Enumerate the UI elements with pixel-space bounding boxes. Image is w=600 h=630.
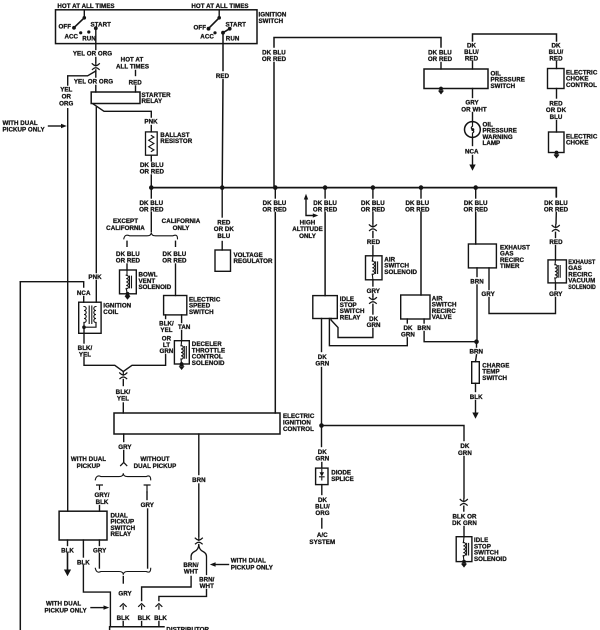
ignition switch 1 RUN contact dot [87, 30, 90, 33]
wire RED into starter relay [135, 86, 137, 92]
svg-text:OR RED: OR RED [428, 56, 453, 63]
wire valve brn to junction [424, 332, 476, 342]
idle stop relay output dk grn long wire [321, 319, 323, 352]
relay output gry [98, 540, 100, 546]
wire into oil pressure switch pin2 [472, 62, 474, 70]
wire dk grn to idle stop relay [331, 319, 373, 338]
wire valve brn output [423, 319, 425, 323]
svg-text:START: START [91, 21, 112, 28]
wire bus drop x421 [420, 188, 422, 198]
wire connector down to starter relay [95, 70, 97, 92]
electric speed switch box [164, 296, 187, 315]
dashed stub right branch [175, 241, 177, 246]
svg-text:RESISTOR: RESISTOR [160, 138, 192, 145]
chevron at gry split [121, 462, 127, 465]
wire timer brn down [476, 268, 478, 277]
wire pnk to ballast [150, 126, 152, 132]
wire NCA elbow from left trunk [20, 282, 83, 287]
svg-text:GRY: GRY [141, 502, 155, 509]
svg-text:OR WHT: OR WHT [461, 106, 487, 113]
ignition switch 1 ACC contact dot [79, 31, 82, 34]
svg-text:LAMP: LAMP [483, 140, 501, 147]
svg-text:HOT AT ALL TIMES: HOT AT ALL TIMES [57, 3, 114, 10]
split brace (dual pickup) [95, 473, 150, 480]
wire ignition feed bus (top) [274, 38, 441, 48]
wire stub hot-at to RED [135, 71, 137, 76]
svg-text:SWITCH: SWITCH [259, 18, 284, 25]
svg-text:RUN: RUN [82, 35, 96, 42]
svg-text:GRY: GRY [549, 291, 563, 298]
wire valve dk grn output [406, 319, 408, 323]
svg-text:YEL: YEL [160, 327, 172, 334]
wire choke control down [556, 89, 558, 99]
arrow to blk2 wire [91, 607, 105, 609]
wire into EIC [122, 403, 124, 413]
svg-text:YEL: YEL [117, 396, 129, 403]
HIGH ALTITUDE ONLY annotation arrow [306, 199, 314, 216]
ignition switch 1 pivot stub [83, 10, 85, 18]
wire into idle stop switch solenoid [463, 527, 465, 537]
dk grn junction dot [319, 423, 324, 428]
ignition switch 1 pivot dot [83, 16, 87, 20]
svg-text:TIMER: TIMER [500, 263, 520, 270]
svg-text:TAN: TAN [178, 324, 191, 331]
wire connector to RED label [372, 232, 374, 238]
wire gry to split [123, 451, 125, 462]
arrow to brn/wht leg [215, 564, 229, 566]
wire gry elbow to egr vacuum solenoid [489, 298, 556, 314]
ignition switch 2 pivot stub [218, 10, 220, 17]
connector C4 [369, 297, 376, 303]
svg-text:RED: RED [367, 239, 381, 246]
wire blk2 to distributor [83, 566, 110, 627]
svg-text:RUN: RUN [226, 36, 240, 43]
svg-text:BLK: BLK [138, 615, 151, 622]
wire into egr vacuum solenoid [555, 246, 557, 260]
wire starter relay to ballast (pnk) [93, 104, 151, 117]
wire x274 down to main bus [273, 63, 275, 188]
wire connector to red label [555, 232, 557, 237]
svg-text:HOT AT ALL TIMES: HOT AT ALL TIMES [191, 3, 248, 10]
wire into voltage regulator [221, 242, 223, 251]
wire bus drop x476 [475, 188, 477, 198]
wire coil to Y merge [84, 358, 123, 372]
svg-text:CALIFORNIA: CALIFORNIA [106, 225, 145, 232]
svg-text:NCA: NCA [465, 148, 479, 155]
svg-text:RELAY: RELAY [111, 531, 132, 538]
wire air switch solenoid down [372, 280, 374, 286]
svg-text:SYSTEM: SYSTEM [309, 539, 335, 546]
svg-text:BLU: BLU [217, 233, 230, 240]
wire tan to deceler solenoid [181, 331, 183, 341]
wire x476 to egr timer [475, 213, 477, 245]
svg-text:NCA: NCA [77, 290, 91, 297]
brn split Y [191, 545, 206, 575]
svg-text:YEL OR ORG: YEL OR ORG [73, 50, 112, 57]
ignition switch 2 START contact dot [228, 27, 232, 31]
bowl vent solenoid [120, 270, 137, 294]
svg-text:GRN: GRN [367, 322, 381, 329]
chevron connector dist 3 [156, 604, 162, 610]
svg-text:SPLICE: SPLICE [331, 476, 354, 483]
T mark left branch [97, 485, 103, 490]
svg-text:YEL OR ORG: YEL OR ORG [74, 79, 113, 86]
electric choke control box [548, 69, 565, 89]
bus junction node dots [149, 185, 154, 190]
wire top-right link bus [473, 34, 557, 41]
wire bus drop x275 to EIC [274, 188, 276, 198]
svg-text:DK GRN: DK GRN [452, 520, 477, 527]
wire ballast to bus [150, 155, 152, 161]
wire Y merge down [122, 380, 124, 386]
connector C5 [552, 225, 559, 231]
wire gry to connector [372, 294, 374, 297]
connector C1 (bullet) [92, 63, 99, 69]
svg-text:OR: OR [62, 93, 72, 100]
svg-text:OR RED: OR RED [116, 257, 141, 264]
svg-text:RED: RED [216, 73, 230, 80]
svg-text:WHT: WHT [184, 569, 198, 576]
svg-text:PICKUP: PICKUP [77, 463, 101, 470]
T mark right branch [144, 485, 150, 492]
electric speed switch output BLK/YEL [165, 315, 167, 319]
wire into distributor 1 [122, 622, 124, 627]
junction dot brn [474, 339, 479, 344]
wire diode splice down [321, 485, 323, 495]
ignition switch 2 OFF contact dot [207, 27, 211, 31]
wire brn/wht right leg to distributor 3 [159, 590, 207, 601]
deceler throttle control solenoid [174, 341, 189, 364]
svg-text:BRN: BRN [192, 477, 206, 484]
wire charge temp blk [475, 383, 477, 391]
oil pressure warning lamp L1 [465, 122, 481, 138]
chevron connector dist 2 [139, 604, 145, 610]
wire into diode splice [321, 463, 323, 469]
svg-text:GRY: GRY [93, 547, 107, 554]
coil internal bottom link [84, 323, 96, 328]
wire ballast label to bus [150, 175, 152, 188]
wire timer gry down [488, 268, 490, 290]
wire dk grn down to diode splice [321, 426, 323, 447]
electric ignition control box [114, 413, 280, 434]
svg-text:GRY: GRY [118, 590, 132, 597]
connector C3 [369, 224, 376, 230]
svg-text:GRN: GRN [160, 348, 174, 355]
svg-text:RED: RED [549, 239, 563, 246]
wire to lamp [472, 113, 474, 123]
svg-text:SWITCH: SWITCH [482, 375, 507, 382]
wire to electric choke [556, 121, 558, 133]
wire bus drop x222 to voltage regulator [221, 188, 223, 217]
wire brn down [198, 484, 200, 537]
ignition switch 2 lever [209, 18, 220, 29]
wire to california split [150, 213, 152, 232]
svg-text:GRN: GRN [401, 331, 415, 338]
oil pressure switch S1 [424, 69, 488, 89]
svg-text:GRN: GRN [458, 450, 472, 457]
ballast resistor zigzag [149, 136, 154, 152]
svg-text:CONTROL: CONTROL [566, 82, 597, 89]
ignition coil T1 box [79, 302, 101, 333]
wire x556 to connector [555, 213, 557, 224]
air switch recirc valve box [401, 295, 430, 319]
diode symbol [320, 472, 325, 476]
svg-text:CONTROL: CONTROL [283, 426, 314, 433]
wire x441 into oil pressure switch [440, 63, 442, 70]
dashed stub left branch [126, 241, 128, 246]
svg-text:OR RED: OR RED [162, 257, 187, 264]
svg-text:SOLENOID: SOLENOID [139, 284, 172, 291]
wire into distributor 2 [141, 622, 143, 627]
svg-text:PICKUP ONLY: PICKUP ONLY [45, 607, 88, 614]
svg-text:ORG: ORG [59, 100, 73, 107]
idle stop switch relay box [313, 296, 338, 319]
wire coil blk/yel down [83, 327, 85, 343]
wire x275 long to EIC top [274, 213, 276, 414]
wire right branch gry [146, 492, 148, 500]
charge temp splice down arrow [475, 401, 477, 414]
dual pickup switch relay box [59, 511, 107, 540]
svg-text:BLK: BLK [470, 394, 483, 401]
wire to a/c system [321, 519, 323, 529]
ignition switch 1 lever [74, 18, 84, 28]
NCA splice down arrow [472, 156, 474, 166]
svg-text:VALVE: VALVE [432, 314, 452, 321]
svg-text:DISTRIBUTOR: DISTRIBUTOR [166, 627, 209, 630]
wire EIC brn output [198, 434, 200, 475]
wire x325 to idle stop switch relay [324, 213, 326, 296]
svg-text:GRY: GRY [118, 444, 132, 451]
wire bus drop x151 [150, 188, 152, 198]
ground at deceler solenoid [179, 362, 185, 370]
svg-text:SOLENOID: SOLENOID [474, 556, 507, 563]
wire bus drop x373 [372, 188, 374, 198]
wire merge down [122, 577, 124, 584]
electric choke box [549, 132, 565, 153]
wire ess output to Y merge [123, 355, 165, 372]
wire NCA into coil [83, 297, 85, 303]
wire brn/wht left leg to distributor 2 [142, 577, 192, 601]
ignition switch 2 ACC contact dot [213, 31, 216, 34]
wire dk grn to junction [321, 368, 323, 426]
svg-text:ALL TIMES: ALL TIMES [116, 63, 149, 70]
wire starter relay down long (pnk to coil) [95, 107, 97, 302]
split brace (california) [124, 233, 178, 239]
connector C2 (bullet at Y merge) [120, 372, 127, 378]
svg-text:PICKUP ONLY: PICKUP ONLY [231, 564, 274, 571]
connector C6 [460, 499, 467, 505]
svg-text:PICKUP ONLY: PICKUP ONLY [3, 126, 46, 133]
svg-text:GRY: GRY [481, 291, 495, 298]
ground at bowl vent solenoid [125, 292, 131, 300]
ballast resistor R1 box [146, 132, 158, 155]
wire valve dk grn to idle stop relay [329, 319, 407, 346]
svg-text:OFF: OFF [59, 24, 72, 31]
svg-text:GRY: GRY [367, 288, 381, 295]
arrow to yel/org wire [49, 125, 63, 127]
idle stop switch solenoid box [456, 537, 472, 562]
svg-text:RELAY: RELAY [340, 314, 361, 321]
wire blk1 with down arrow [67, 554, 69, 571]
wire bus drop x325 [324, 188, 326, 198]
svg-text:CHOKE: CHOKE [566, 140, 589, 147]
ignition switch box [56, 10, 258, 44]
distributor box (partial at bottom) [110, 627, 164, 630]
svg-text:WITH DUAL: WITH DUAL [71, 456, 106, 463]
wire ops to lamp [472, 89, 474, 98]
svg-text:SOLENOID: SOLENOID [384, 269, 417, 276]
wire to electric speed switch [175, 264, 177, 296]
wire into air switch solenoid [372, 246, 374, 256]
wire brn to junction [476, 285, 478, 342]
wire from START switch1 down through box [95, 28, 97, 49]
wire RED down from switch2 [221, 33, 224, 188]
wire to bowl vent solenoid [126, 264, 128, 270]
svg-text:COIL: COIL [103, 309, 118, 316]
main bus wire [151, 188, 556, 197]
merge brace (distributor gry) [95, 568, 150, 575]
ignition coil windings [84, 307, 86, 323]
svg-text:BLK: BLK [96, 499, 109, 506]
wire dk grn branch right [322, 426, 465, 441]
svg-text:SWITCH: SWITCH [189, 309, 214, 316]
wire x373 to connector [372, 213, 374, 224]
svg-text:GRN: GRN [315, 456, 329, 463]
svg-text:ORG: ORG [315, 510, 329, 517]
svg-text:ACC: ACC [65, 34, 79, 41]
svg-text:RELAY: RELAY [142, 98, 163, 105]
charge temp switch box [472, 362, 480, 384]
svg-text:ACC: ACC [200, 34, 214, 41]
svg-text:YEL: YEL [79, 352, 91, 359]
wire gry3 to merge brace [98, 554, 100, 569]
air switch solenoid box [366, 256, 383, 280]
ignition switch 2 pivot dot [217, 16, 221, 20]
wire egr vac solenoid gry stub [555, 283, 557, 290]
wire connector to blk or dk grn [463, 506, 465, 511]
svg-text:WITHOUT: WITHOUT [140, 456, 169, 463]
wire connector to dk grn [372, 304, 374, 314]
wire into electric choke control [556, 62, 558, 69]
ignition switch 2 RUN node dot [221, 31, 225, 35]
wire bus corner drop x556 [555, 196, 557, 199]
wire lamp down [472, 138, 474, 145]
connector C7 [195, 538, 202, 544]
wire into distributor 3 [158, 622, 160, 627]
svg-text:BLK: BLK [154, 615, 167, 622]
svg-text:PNK: PNK [88, 274, 102, 281]
wire junction to charge temp switch [476, 342, 477, 362]
svg-text:GRN: GRN [315, 361, 329, 368]
svg-text:SOLENOID: SOLENOID [568, 284, 596, 291]
ground at idle stop switch solenoid [461, 560, 467, 568]
wire START to connector [95, 58, 97, 63]
wire dk grn to connector [463, 457, 465, 499]
svg-text:DUAL PICKUP: DUAL PICKUP [134, 463, 177, 470]
svg-text:SOLENOID: SOLENOID [192, 360, 225, 367]
starter relay K1 [91, 92, 140, 104]
ground at oil pressure switch [438, 87, 444, 95]
exhaust gas recirc timer box [468, 244, 496, 268]
wire gry/blk into dual pickup relay [99, 506, 101, 512]
wire from START switch2 angled to RUN node [223, 29, 230, 33]
electric speed switch output TAN [181, 315, 183, 323]
left trunk wire (to distributor area) [19, 282, 21, 630]
wire yel/org left long vertical [67, 109, 69, 512]
svg-text:RED: RED [465, 55, 479, 62]
svg-text:SWITCH: SWITCH [491, 83, 516, 90]
wire x421 to air switch recirc valve [420, 213, 422, 296]
wire right branch to merge brace [147, 509, 149, 568]
svg-text:REGULATOR: REGULATOR [234, 258, 274, 265]
svg-text:OR RED: OR RED [140, 169, 165, 176]
wire branch diagonal to left yel/org [68, 71, 96, 85]
svg-text:ONLY: ONLY [173, 225, 191, 232]
ignition switch 1 START contact dot [94, 26, 98, 30]
ground at electric choke [554, 151, 560, 159]
ignition switch 1 OFF contact dot [72, 26, 76, 30]
svg-text:OFF: OFF [194, 24, 207, 31]
exhaust gas recirc vacuum solenoid box [548, 260, 566, 283]
chevron connector gry-distributor [120, 604, 126, 610]
svg-text:ONLY: ONLY [299, 233, 317, 240]
wire EIC gry output [123, 434, 125, 442]
relay output blk 1 [67, 540, 69, 546]
voltage regulator box [215, 250, 231, 271]
svg-text:PNK: PNK [144, 118, 158, 125]
diode splice box [316, 468, 328, 485]
svg-text:OR RED: OR RED [405, 207, 430, 214]
relay output blk 2 [82, 540, 84, 557]
